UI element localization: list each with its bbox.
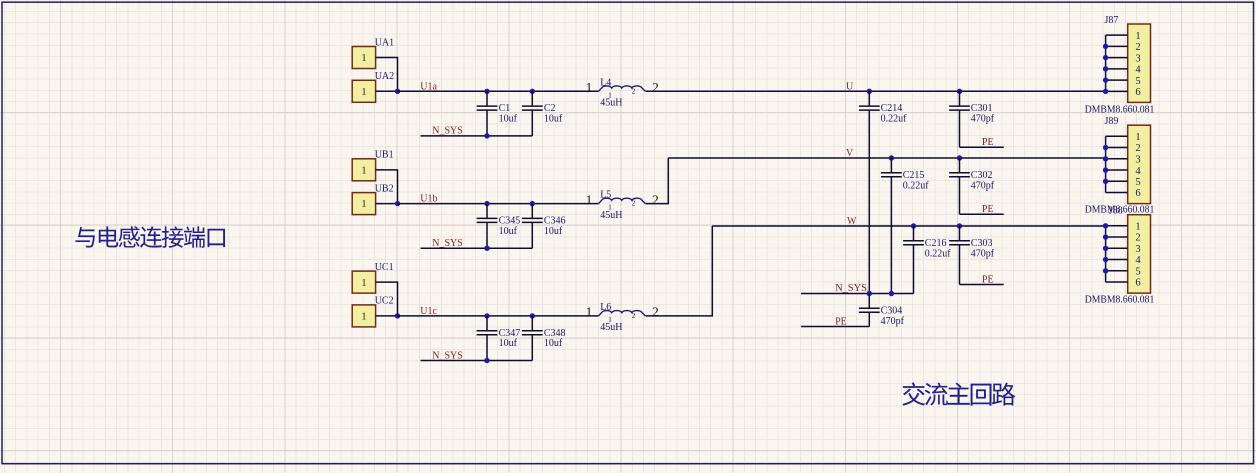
junction pin 3 of J89 [1103,156,1108,161]
wire L6 to W [646,226,713,316]
svg-text:1: 1 [1135,31,1140,42]
svg-text:UA2: UA2 [375,71,394,82]
svg-text:10uf: 10uf [499,114,518,125]
junction on N_SYS [484,246,489,251]
svg-text:0.22uf: 0.22uf [925,248,952,259]
junction N_SYS / C214 / C304 [867,291,872,296]
junction U1c ports [395,313,400,318]
svg-text:1: 1 [361,277,366,289]
wire PE under C304 [801,326,869,328]
wire V [668,157,1105,159]
wire UA1 to junction [376,58,398,92]
capacitor C303 [959,226,961,241]
svg-text:470pf: 470pf [971,180,995,191]
pin 3 of J87 [1106,57,1128,59]
capacitor C304 [868,294,870,309]
junction pin 5 of J88 [1103,268,1108,273]
capacitor C216 [913,226,915,241]
svg-text:UA1: UA1 [375,37,394,48]
svg-text:2: 2 [652,192,659,207]
title 交流主回路 [902,382,1015,405]
wire net U1a [398,90,599,92]
svg-text:1: 1 [361,198,366,210]
port UB1 [352,159,375,181]
svg-text:2: 2 [1135,42,1140,53]
svg-text:2: 2 [632,199,636,208]
capacitor C347 [486,316,488,331]
svg-text:UC1: UC1 [375,262,394,273]
pin 1 of J87 [1106,34,1128,36]
svg-text:DMBM8.660.081: DMBM8.660.081 [1085,294,1155,305]
svg-text:0.22uf: 0.22uf [903,180,930,191]
svg-text:C347: C347 [499,328,521,339]
capacitor C346 [531,204,533,219]
svg-text:4: 4 [1135,166,1141,177]
inductor L5 [599,198,646,203]
capacitor C215 [890,158,892,173]
svg-text:6: 6 [1135,278,1140,289]
inductor L4 [599,86,646,91]
wire N_SYS [421,360,533,362]
port UA1 [352,47,375,69]
wire UB1 to junction [376,170,398,204]
junction at C348 [530,313,535,318]
svg-text:5: 5 [1135,177,1140,188]
connector J88 [1128,215,1151,293]
svg-text:DMBM8.660.081: DMBM8.660.081 [1085,104,1155,115]
svg-text:3: 3 [1135,155,1140,166]
svg-text:L5: L5 [600,190,611,201]
inductor L6 [599,311,646,316]
junction N_SYS / C215 [889,291,894,296]
junction pin 2 of J89 [1103,145,1108,150]
svg-text:0.22uf: 0.22uf [881,114,908,125]
svg-text:PE: PE [835,316,847,327]
svg-text:470pf: 470pf [881,316,905,327]
svg-text:C1: C1 [499,103,511,114]
capacitor C345 [486,204,488,219]
junction at C303 [957,223,962,228]
wire UA2 to junction [376,90,398,92]
junction pin 5 of J89 [1103,179,1108,184]
svg-text:2: 2 [632,311,636,320]
svg-text:10uf: 10uf [544,226,563,237]
pin 6 of J87 [1106,90,1128,92]
port UC1 [352,271,375,293]
junction pin 6 of J87 [1103,89,1108,94]
wire N_SYS [421,135,533,137]
svg-text:1: 1 [361,311,366,323]
pin 2 of J89 [1106,147,1128,149]
pin 1 of J89 [1106,135,1128,137]
wire UC2 to junction [376,315,398,317]
wire UC1 to junction [376,282,398,316]
svg-text:N_SYS: N_SYS [432,350,463,361]
svg-text:C346: C346 [544,216,566,227]
svg-text:N_SYS: N_SYS [835,283,867,294]
svg-text:1: 1 [586,304,593,319]
svg-text:4: 4 [1135,65,1141,76]
junction at C2 [530,89,535,94]
svg-text:C345: C345 [499,216,521,227]
pin 1 of J88 [1106,225,1128,227]
pin 6 of J89 [1106,192,1128,194]
svg-text:N_SYS: N_SYS [432,126,463,137]
wire PE under C303 [960,284,1004,286]
svg-text:UC2: UC2 [375,296,394,307]
svg-text:C214: C214 [881,103,903,114]
junction at C346 [530,201,535,206]
svg-text:C303: C303 [971,238,993,249]
svg-text:J89: J89 [1105,116,1119,127]
svg-text:5: 5 [1135,267,1140,278]
wire net U1c [398,315,599,317]
svg-text:470pf: 470pf [971,114,995,125]
svg-text:1: 1 [608,90,612,99]
svg-text:N_SYS: N_SYS [432,238,463,249]
svg-text:1: 1 [586,192,593,207]
svg-text:1: 1 [361,164,366,176]
svg-text:10uf: 10uf [544,114,563,125]
junction at C216 [911,223,916,228]
svg-text:C216: C216 [925,238,947,249]
pin 5 of J89 [1106,180,1128,182]
svg-text:1: 1 [586,80,593,95]
port UC2 [352,305,375,327]
svg-text:2: 2 [652,304,659,319]
svg-text:C215: C215 [903,170,925,181]
pin 4 of J87 [1106,68,1128,70]
svg-text:L6: L6 [600,302,611,313]
svg-text:UB1: UB1 [375,150,394,161]
bus wire at J88 [1105,226,1107,282]
wire PE under C302 [960,213,1004,215]
svg-text:W: W [847,216,857,227]
svg-text:1: 1 [1135,132,1140,143]
svg-text:10uf: 10uf [499,226,518,237]
capacitor C302 [959,158,961,173]
bus wire at J89 [1105,136,1107,192]
svg-text:3: 3 [1135,53,1140,64]
svg-text:PE: PE [982,204,994,215]
junction pin 1 of J88 [1103,223,1108,228]
svg-text:L4: L4 [600,77,611,88]
junction at C302 [957,155,962,160]
svg-text:10uf: 10uf [544,338,563,349]
port UB2 [352,193,375,215]
svg-text:6: 6 [1135,87,1140,98]
svg-text:C2: C2 [544,103,556,114]
svg-text:C348: C348 [544,328,566,339]
svg-text:C304: C304 [881,305,903,316]
pin 2 of J88 [1106,236,1128,238]
junction at C301 [957,89,962,94]
svg-text:1: 1 [608,203,612,212]
port UA2 [352,80,375,102]
junction pin 3 of J87 [1103,55,1108,60]
wire net U1b [398,203,599,205]
pin 4 of J89 [1106,169,1128,171]
junction at C215 [889,155,894,160]
svg-text:6: 6 [1135,188,1140,199]
pin 3 of J88 [1106,247,1128,249]
pin 6 of J88 [1106,281,1128,283]
svg-text:U1b: U1b [420,194,437,205]
junction pin 2 of J88 [1103,234,1108,239]
pin 2 of J87 [1106,45,1128,47]
junction U1b ports [395,201,400,206]
wire PE under C301 [960,146,1004,148]
connector J89 [1128,125,1151,203]
junction pin 2 of J87 [1103,44,1108,49]
capacitor C301 [959,91,961,106]
wire W [712,225,1105,227]
junction U1a ports [395,89,400,94]
title 与电感连接端口 [75,226,225,248]
junction at C1 [484,89,489,94]
junction pin 4 of J89 [1103,167,1108,172]
svg-text:5: 5 [1135,76,1140,87]
junction pin 4 of J87 [1103,66,1108,71]
svg-text:3: 3 [1135,244,1140,255]
wire UB2 to junction [376,203,398,205]
capacitor C1 [486,91,488,106]
capacitor C214 [868,91,870,106]
svg-text:U1a: U1a [420,81,437,92]
svg-text:C301: C301 [971,103,993,114]
junction pin 3 of J88 [1103,246,1108,251]
svg-text:2: 2 [652,80,659,95]
pin 5 of J88 [1106,270,1128,272]
svg-text:C302: C302 [971,170,993,181]
pin 4 of J88 [1106,259,1128,261]
svg-text:PE: PE [982,137,994,148]
junction on N_SYS [484,133,489,138]
pin 3 of J89 [1106,158,1128,160]
svg-text:U1c: U1c [420,306,437,317]
junction pin 4 of J88 [1103,257,1108,262]
connector J87 [1128,24,1151,102]
wire U (L4 to J87) [646,90,1106,92]
junction on N_SYS [484,358,489,363]
svg-text:2: 2 [1135,233,1140,244]
svg-text:1: 1 [361,86,366,98]
svg-text:PE: PE [982,274,994,285]
svg-text:4: 4 [1135,255,1141,266]
junction at C345 [484,201,489,206]
pin 5 of J87 [1106,79,1128,81]
bus wire at J87 [1105,35,1107,91]
svg-text:2: 2 [632,86,636,95]
capacitor C2 [531,91,533,106]
wire N_SYS [421,247,533,249]
svg-text:1: 1 [361,52,366,64]
svg-text:470pf: 470pf [971,248,995,259]
svg-text:U: U [846,81,854,92]
junction at C214 [867,89,872,94]
junction at C347 [484,313,489,318]
svg-text:1: 1 [608,315,612,324]
svg-text:10uf: 10uf [499,338,518,349]
svg-text:J87: J87 [1105,15,1119,26]
svg-text:1: 1 [1135,222,1140,233]
svg-text:2: 2 [1135,143,1140,154]
junction pin 5 of J87 [1103,77,1108,82]
svg-text:UB2: UB2 [375,183,394,194]
capacitor C348 [531,316,533,331]
wire L5 to V [646,158,669,204]
svg-text:J88: J88 [1109,205,1123,216]
wire N_SYS middle [801,293,914,295]
svg-text:V: V [846,148,854,159]
